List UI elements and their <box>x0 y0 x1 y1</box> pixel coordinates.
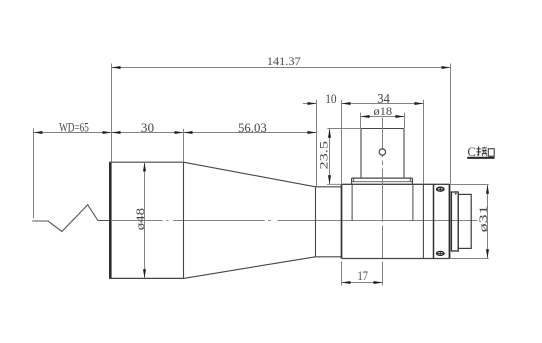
dim WD=65 left arrow <box>34 131 43 134</box>
mid cylinder top edge <box>316 186 342 188</box>
front face thick edge <box>109 162 112 278</box>
main block front edge <box>341 184 343 258</box>
dim 34 right extension line <box>423 100 425 184</box>
dim 23.5 bottom arrow <box>328 175 331 184</box>
cone top edge <box>184 162 316 187</box>
optical axis centerline (horizontal dash-dot) <box>112 220 478 222</box>
port center circle <box>379 149 385 155</box>
dim ø31 top arrow <box>486 185 489 194</box>
dim 141.37 line <box>112 67 451 69</box>
svg-text:17: 17 <box>358 268 369 283</box>
dim ø48 line <box>144 162 146 278</box>
svg-text:56.03: 56.03 <box>238 120 267 135</box>
dim ø31 line <box>487 185 489 259</box>
dim 17 right extension line <box>382 262 384 286</box>
rear flange back edge <box>449 184 451 258</box>
object-plane break zigzag on axis <box>32 205 110 232</box>
dim ø18 right arrow <box>396 115 405 118</box>
svg-text:ø18: ø18 <box>374 104 393 118</box>
dim 23.5 line <box>329 129 331 185</box>
dim ø31 bottom extension line <box>450 258 489 260</box>
screw top <box>436 187 445 191</box>
thread mark dot <box>455 193 457 195</box>
dim 17 left extension line <box>341 262 343 286</box>
dim ø31 top extension line <box>450 184 489 186</box>
dim 34 left extension line <box>341 100 343 184</box>
dim ø18 right extension line <box>404 113 406 128</box>
dim 30 right extension line <box>183 129 185 162</box>
dim ø48 top arrow <box>143 162 146 171</box>
dim ø18 left extension line <box>360 113 362 128</box>
dim ø31 bottom arrow <box>486 249 489 258</box>
dim 30 right arrow <box>175 131 184 134</box>
dim 23.5 bottom extension line <box>327 183 342 185</box>
dim 141.37 left extension line <box>111 64 113 162</box>
main block bottom edge <box>342 258 450 260</box>
svg-text:WD=65: WD=65 <box>59 120 89 135</box>
label C-mount glyph 接 <box>476 146 487 156</box>
dim 56.03 line <box>184 132 317 134</box>
label C-mount underline <box>467 157 494 159</box>
port boss left wall <box>351 184 353 221</box>
dim 10 outside arrow <box>308 102 317 105</box>
dim 56.03 left arrow <box>184 131 193 134</box>
svg-text:ø31: ø31 <box>476 205 490 232</box>
dim 10 tail line <box>303 103 317 105</box>
dim 23.5 top extension line <box>327 128 361 130</box>
screw bottom <box>436 251 445 255</box>
front barrel rear edge <box>183 162 185 278</box>
rear flange front edge <box>433 184 435 258</box>
dim 17 left arrow <box>342 281 351 284</box>
dim 30 left arrow <box>112 131 121 134</box>
rear barrel <box>458 194 471 248</box>
front barrel bottom edge <box>109 277 184 279</box>
dim 34 line <box>342 103 424 105</box>
cone bottom edge <box>184 257 316 279</box>
svg-text:ø48: ø48 <box>133 208 147 231</box>
dim ø48 bottom arrow <box>143 269 146 278</box>
dim 34 right arrow <box>415 102 424 105</box>
port right wall <box>403 128 405 178</box>
dim 34 left arrow <box>342 102 351 105</box>
svg-text:30: 30 <box>141 120 154 135</box>
object plane extension line <box>33 128 35 218</box>
svg-text:23.5: 23.5 <box>316 141 330 170</box>
port flange outline <box>352 178 413 184</box>
svg-text:141.37: 141.37 <box>267 54 301 68</box>
front barrel top edge <box>109 161 184 163</box>
port left wall <box>360 128 362 178</box>
C-mount thread section <box>451 192 458 251</box>
flange right tick <box>409 178 411 182</box>
cone end edge <box>315 186 317 257</box>
dim 17 right arrow <box>374 281 383 284</box>
dim ø18 left arrow <box>361 115 370 118</box>
port boss right wall <box>412 184 414 221</box>
dim 10 shared extension line <box>316 100 318 187</box>
dim ø18 line <box>361 116 405 118</box>
dim 17 line <box>342 282 383 284</box>
label C-mount glyph 口 <box>488 149 494 157</box>
dim WD=65 line <box>34 132 112 134</box>
port top edge <box>361 128 404 130</box>
dim 23.5 top arrow <box>328 129 331 138</box>
dim 141.37 right arrow <box>442 66 451 69</box>
mid cylinder bottom edge <box>316 256 342 258</box>
dim 141.37 right extension line <box>450 64 452 184</box>
dim 56.03 right arrow <box>308 131 317 134</box>
flange left tick <box>353 178 355 182</box>
dim 141.37 left arrow <box>112 66 121 69</box>
svg-text:10: 10 <box>325 91 336 106</box>
dim WD=65 right arrow <box>103 131 112 134</box>
dim 30 line <box>112 132 184 134</box>
main block top edge <box>342 183 450 185</box>
ring edge <box>422 184 424 258</box>
port centerline (vertical dash-dot) <box>382 118 384 259</box>
